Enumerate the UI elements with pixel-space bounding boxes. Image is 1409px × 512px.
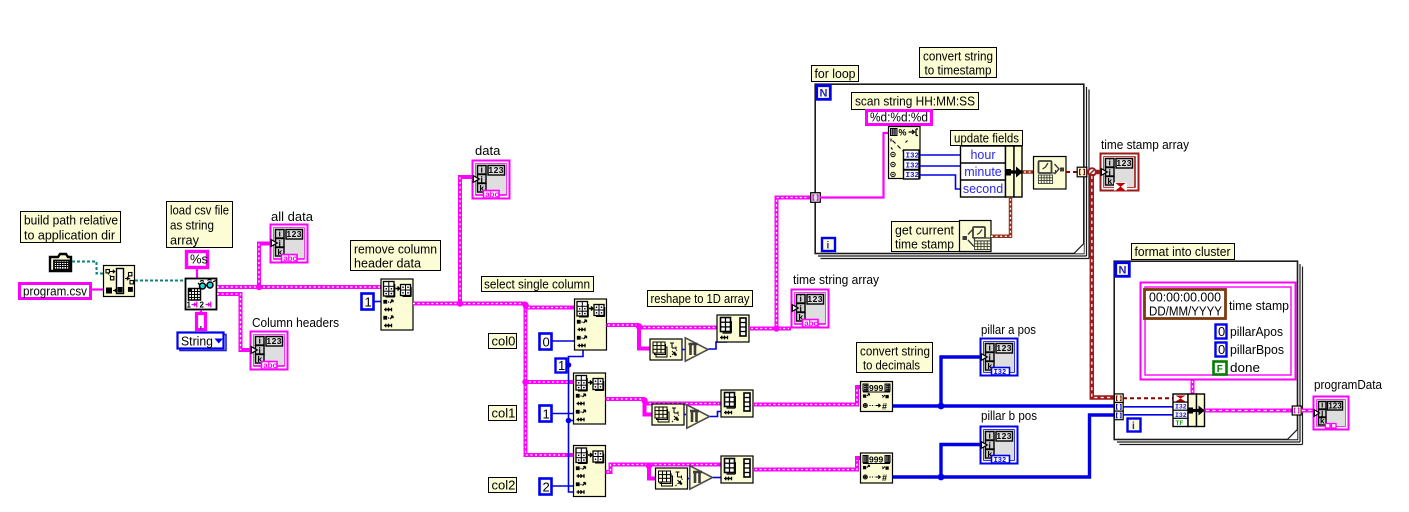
tunnel: string array in <box>811 193 821 203</box>
svg-text:1: 1 <box>558 358 565 373</box>
node: decimal string to number 2 <box>861 453 893 483</box>
svg-text:0: 0 <box>543 335 550 350</box>
node: index array col2 <box>574 446 606 497</box>
indicator: Column headers (1D string array) <box>251 332 288 371</box>
svg-text:F: F <box>1217 364 1223 375</box>
numeric constant 1 (col1) <box>540 406 552 422</box>
node: index array col0 <box>575 299 607 350</box>
wire: multiply1 to reshape1 dim <box>709 341 727 349</box>
indicator: all data (2D string array) <box>271 225 308 264</box>
numeric constant "1" (row count) <box>362 294 374 310</box>
svg-text:123: 123 <box>1328 401 1342 410</box>
svg-text:I32: I32 <box>1175 404 1187 411</box>
svg-text:abc: abc <box>485 190 499 199</box>
node: bundle by name (update fields) <box>961 146 1023 197</box>
node: get date/time in seconds <box>960 221 992 252</box>
svg-text:abc: abc <box>263 361 277 370</box>
wire: %s stub <box>196 269 198 278</box>
node: date/time to timestamp (set time) <box>1034 157 1067 190</box>
svg-text:select single column: select single column <box>484 277 590 292</box>
node: build path (relative to app dir) <box>104 266 135 297</box>
wire: cluster constant to bundle <box>1191 380 1195 394</box>
indicator: data (2D string array) <box>473 161 510 200</box>
tunnel: cluster array out <box>1292 406 1301 415</box>
constant 0 pillarApos <box>1216 324 1227 339</box>
svg-text:minute: minute <box>964 165 1002 179</box>
svg-text:to decimals: to decimals <box>863 358 920 373</box>
wire: branch to index node col1 <box>526 380 574 384</box>
svg-text:second: second <box>963 182 1003 196</box>
svg-text:2: 2 <box>200 301 205 310</box>
N count terminal <box>817 86 831 100</box>
wire: set time to tunnel (timestamp, maroon dashed) <box>1066 171 1077 173</box>
folder path constant <box>50 254 71 271</box>
node: reshape array 3 <box>721 456 753 483</box>
label "build path relative to application dir" <box>21 212 121 243</box>
wire: branch up to all data <box>259 244 270 288</box>
wire: size2 to multiply2 <box>684 414 687 416</box>
wire: size1 to multiply1 <box>682 349 685 351</box>
wire: dec1 out (I32 array) to cluster loop <box>893 404 1115 407</box>
svg-text:hour: hour <box>970 148 995 162</box>
wire: hour (I32) <box>920 154 961 156</box>
svg-text:i: i <box>1132 421 1135 432</box>
label "format into cluster" <box>1132 244 1235 260</box>
svg-text:I32: I32 <box>994 369 1007 377</box>
node: bundle (format cluster) <box>1173 394 1205 427</box>
tunnel: timestamp out <box>1077 167 1087 177</box>
wire: comma stub <box>200 310 202 313</box>
string constant "program.csv" <box>20 284 91 299</box>
wire: pillarB into bundle <box>1123 414 1173 416</box>
label "col0" <box>489 334 517 349</box>
i iteration terminal (format loop) <box>1128 419 1141 433</box>
label "col1" <box>489 406 517 421</box>
indicator: pillar b pos (I32 array) <box>981 427 1018 466</box>
format constant "%s" <box>187 252 209 268</box>
indicator: time stamp array <box>1101 154 1139 191</box>
svg-text:to timestamp: to timestamp <box>925 63 992 78</box>
wire: branch down to array size3 <box>649 465 656 479</box>
label "remove column header data" <box>351 241 441 271</box>
indicator: time string array <box>792 290 829 329</box>
wire: program.csv to build path (string, magenta) <box>92 288 103 290</box>
wire: branch up to pillar a pos <box>941 357 980 406</box>
wire: 0 to index node1 <box>552 340 575 342</box>
wire: pillarA into bundle <box>1123 406 1173 408</box>
node: scan from string <box>889 127 921 181</box>
svg-text:pillarBpos: pillarBpos <box>1230 342 1284 357</box>
constant F done <box>1214 362 1227 375</box>
for loop border (format) <box>1114 261 1302 444</box>
numeric constant 2 (col2) <box>540 479 552 495</box>
wire: bundle out to set-time node <box>1023 170 1034 174</box>
svg-text:done: done <box>1230 360 1260 375</box>
svg-text:TF: TF <box>1176 420 1184 427</box>
svg-text:1: 1 <box>365 295 372 310</box>
svg-text:convert string: convert string <box>860 344 930 359</box>
wire: second (I32) <box>920 175 961 189</box>
wire: branch up to data indicator <box>460 177 472 304</box>
node: decimal string to number 1 <box>861 382 893 412</box>
wire: branch down to array size2 <box>645 399 653 415</box>
wire: get time to bundle (timestamp cluster, brown dotted) <box>991 197 1011 236</box>
node: multiply array elements 1 <box>685 338 708 361</box>
svg-text:convert string: convert string <box>923 49 993 64</box>
svg-text:I32: I32 <box>994 457 1007 465</box>
svg-text:col0: col0 <box>492 334 516 349</box>
label "for loop" <box>812 66 859 82</box>
svg-text:format into cluster: format into cluster <box>1135 244 1232 259</box>
numeric constant 1 (shared index) <box>556 358 567 373</box>
wire: branch up to pillar b pos <box>941 445 980 478</box>
svg-text:abc: abc <box>283 254 297 263</box>
svg-text:col2: col2 <box>492 478 516 493</box>
wire: index2 out to reshape2 <box>606 399 722 404</box>
node: array size 3 <box>656 468 688 489</box>
svg-text:N: N <box>1119 265 1127 277</box>
wire: into index node col0 <box>524 306 575 310</box>
label "convert string to timestamp" <box>920 48 997 78</box>
node: reshape array 1 <box>717 315 749 342</box>
wire: tunnel to scan node (string) <box>820 133 889 198</box>
i iteration terminal <box>822 238 835 252</box>
label "select single column" <box>482 277 594 292</box>
svg-text:DD/MM/YYYY: DD/MM/YYYY <box>1149 304 1222 319</box>
cluster constant frame <box>1141 283 1296 380</box>
svg-text:1: 1 <box>187 301 192 310</box>
label "col2" <box>489 478 517 493</box>
svg-text:I32: I32 <box>906 163 920 171</box>
node: read delimited spreadsheet <box>186 279 217 310</box>
svg-text:time stamp: time stamp <box>895 237 954 252</box>
svg-text:I32: I32 <box>906 153 920 161</box>
loop corner fold <box>1074 244 1084 254</box>
tunnel: pillar a in <box>1114 403 1123 412</box>
label "convert string to decimals" <box>857 343 933 373</box>
node: reshape array 2 <box>721 390 753 417</box>
svg-text:time stamp array: time stamp array <box>1101 137 1189 152</box>
svg-text:N: N <box>820 88 828 100</box>
svg-text:to application dir: to application dir <box>24 228 116 243</box>
indicator: pillar a pos (I32 array) <box>981 339 1018 378</box>
wire: up into for loop tunnel <box>777 198 812 329</box>
svg-text:col1: col1 <box>492 406 516 421</box>
wire: size3 to multiply3 <box>688 478 691 480</box>
svg-text:scan string HH:MM:SS: scan string HH:MM:SS <box>855 94 975 109</box>
label "load csv file as string array" <box>167 202 233 248</box>
wire: build path out (teal) <box>135 280 185 282</box>
svg-text:as string: as string <box>170 218 214 233</box>
svg-text:build path relative: build path relative <box>24 213 118 228</box>
node: index array col1 <box>574 373 606 424</box>
svg-text:0: 0 <box>1218 324 1225 339</box>
numeric constant 0 <box>540 334 552 350</box>
svg-text:String: String <box>181 334 213 349</box>
svg-text:update fields: update fields <box>954 131 1019 146</box>
timestamp constant 00:00:00.000 DD/MM/YYYY <box>1145 290 1226 319</box>
wire: multiply2 to reshape2 dim <box>710 412 721 417</box>
svg-text:k: k <box>1320 417 1325 426</box>
svg-text:i: i <box>827 241 830 252</box>
svg-text:time stamp: time stamp <box>1229 298 1289 313</box>
wire: index3 out to reshape3 <box>606 465 722 473</box>
node: array size 2 <box>652 404 684 425</box>
label "scan string HH:MM:SS" <box>852 93 979 110</box>
for loop border <box>815 84 1089 258</box>
svg-text:array: array <box>170 233 199 248</box>
wire: read out1 (2D string array) to remove node <box>217 285 381 289</box>
svg-text:pillar a pos: pillar a pos <box>981 322 1036 337</box>
svg-text:remove column: remove column <box>354 242 437 257</box>
wire: 2 to index node3 <box>552 485 574 487</box>
constant 0 pillarBpos <box>1216 342 1227 357</box>
wire: tunnel to programData <box>1301 409 1313 413</box>
svg-text:reshape to 1D array: reshape to 1D array <box>651 291 750 306</box>
svg-text:,: , <box>199 316 203 331</box>
wire: bundle out to tunnel (cluster array) <box>1205 409 1293 413</box>
wire: timestamp into bundle <box>1123 397 1173 399</box>
wire: shared 1 vertical chain <box>569 350 584 492</box>
wire: reshape1 out to time string array + loop (1D string array) <box>749 327 791 331</box>
svg-text:%: % <box>899 128 907 138</box>
node: multiply array elements 2 <box>687 405 710 428</box>
svg-text:time string array: time string array <box>793 272 879 287</box>
svg-text:%d:%d:%d: %d:%d:%d <box>870 110 928 125</box>
wire: multiply3 to reshape3 dim <box>713 477 721 479</box>
wire: 1 to index node2 <box>552 413 574 415</box>
wire: index1 out to reshape1 <box>607 325 718 328</box>
svg-text:00:00:00.000: 00:00:00.000 <box>1149 290 1221 305</box>
svg-text:abc: abc <box>804 319 818 328</box>
format constant "%d:%d:%d" <box>867 110 932 125</box>
svg-text:data: data <box>475 143 501 158</box>
label "get current time stamp" <box>892 222 960 252</box>
wire: folder to build path (path type, teal) <box>72 262 103 274</box>
wire: reshape3 out to decimal node2 <box>753 458 861 470</box>
wire: timestamp array down to cluster loop <box>1092 174 1114 398</box>
svg-text:get current: get current <box>895 223 954 238</box>
wire: 1 to remove node <box>374 301 381 303</box>
wire: read out2 (first row) to Column headers <box>217 294 250 350</box>
svg-text:Column headers: Column headers <box>252 315 339 330</box>
label "reshape to 1D array" <box>648 291 753 307</box>
svg-text:1: 1 <box>543 407 550 422</box>
label "update fields" <box>951 131 1023 146</box>
node: multiply array elements 3 <box>690 466 713 489</box>
svg-text:load csv file: load csv file <box>170 203 229 218</box>
svg-text:pillar b pos: pillar b pos <box>981 408 1037 423</box>
svg-text:0: 0 <box>1218 342 1225 357</box>
node: delete from array (remove header) <box>381 279 413 330</box>
wire: reshape2 out to decimal node1 <box>753 387 861 405</box>
wire: trunk down to col1/col2 <box>526 304 574 456</box>
wire: minute (I32) <box>920 165 961 167</box>
wire: remove out to index nodes (long) <box>413 302 526 306</box>
enum constant "String" dropdown <box>178 333 227 351</box>
svg-text:pillarApos: pillarApos <box>1230 324 1283 339</box>
comma delimiter constant <box>197 314 206 331</box>
svg-text:%s: %s <box>190 252 209 267</box>
node: array size 1 <box>650 339 682 360</box>
wire: branch down to array size1 <box>639 325 650 349</box>
wire: dec2 out (I32 array) to cluster loop <box>893 415 1115 477</box>
svg-text:2: 2 <box>543 480 550 495</box>
svg-text:header data: header data <box>354 256 422 271</box>
tunnel: timestamp array in <box>1114 394 1123 403</box>
svg-text:program.csv: program.csv <box>23 284 87 299</box>
indicator: programData (cluster array) <box>1314 397 1349 430</box>
svg-text:programData: programData <box>1314 377 1383 392</box>
junction: timestamp array split <box>1087 170 1100 175</box>
tunnel: pillar b in <box>1114 411 1123 420</box>
loop corner fold (format) <box>1288 430 1298 440</box>
svg-text:for loop: for loop <box>815 66 856 81</box>
svg-text:I32: I32 <box>1175 412 1187 419</box>
svg-text:I32: I32 <box>906 172 920 180</box>
N count terminal (format loop) <box>1116 263 1130 277</box>
svg-text:all data: all data <box>271 209 314 224</box>
